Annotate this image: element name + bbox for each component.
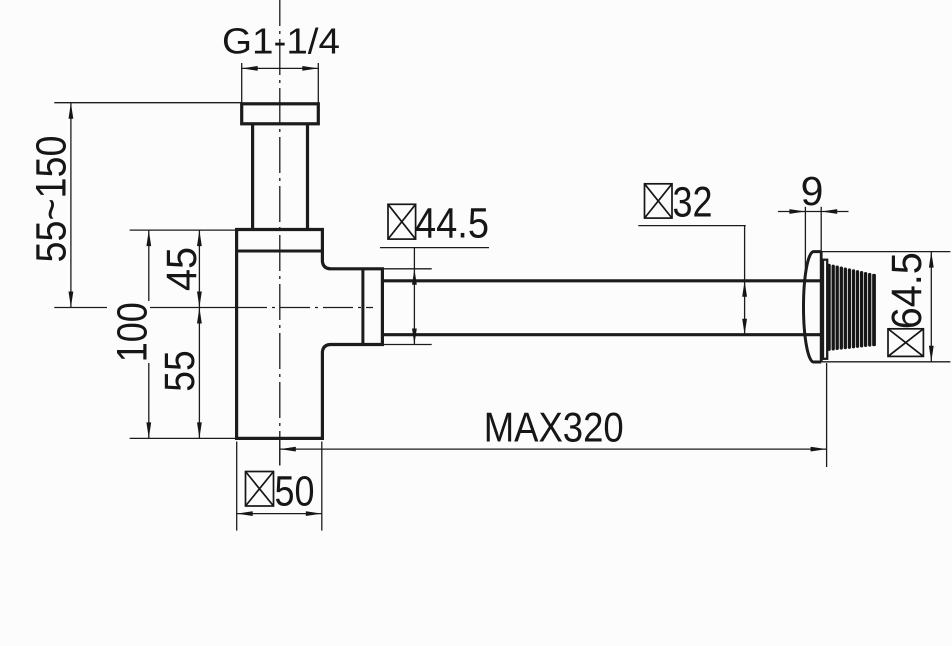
wall rosette (dome) — [804, 252, 822, 362]
dim 64.5 line — [930, 252, 932, 362]
dim 100/55 bottom extension — [130, 437, 237, 439]
arrow 9 right (points left) — [821, 209, 837, 214]
label 100 background — [107, 301, 150, 363]
body flange line — [237, 250, 323, 253]
arrow 55 up — [197, 308, 202, 324]
dim 9 right extension — [820, 207, 822, 252]
dim G1-1/4 extension lines — [241, 63, 243, 104]
svg-text:MAX320: MAX320 — [484, 403, 624, 450]
arrow 100 up — [146, 230, 151, 246]
dim MAX320 line — [280, 448, 827, 450]
tailpiece collar — [823, 260, 827, 359]
dim MAX320 left extension — [279, 438, 281, 465]
svg-text:G1-1/4: G1-1/4 — [222, 21, 340, 62]
arrow 100 down — [146, 422, 151, 438]
dim 44.5 top extension — [384, 268, 432, 270]
arrow G right — [302, 66, 318, 71]
arrow 32 down — [742, 319, 747, 335]
arrow 55 down — [197, 422, 202, 438]
label dia32 box — [645, 184, 673, 218]
arrow 64.5 down — [929, 346, 934, 362]
arrow 32 up — [742, 281, 747, 297]
dim 55~150 top extension — [54, 102, 241, 104]
dim 100/45 top extension — [130, 229, 237, 231]
outlet nut face line — [361, 269, 364, 345]
trap body outline — [237, 230, 383, 439]
svg-text:64.5: 64.5 — [883, 252, 931, 329]
horizontal centerline (outlet axis, left extension) — [54, 307, 237, 309]
dim 50 left extension — [236, 442, 238, 531]
svg-text:50: 50 — [275, 468, 315, 516]
arrow MAX320 left — [280, 447, 296, 452]
svg-text:45: 45 — [158, 247, 206, 291]
dim 9 left extension — [804, 207, 806, 275]
label dia50 box — [246, 472, 274, 507]
outlet tube (horizontal pipe) — [382, 279, 821, 282]
arrow 50 right — [306, 511, 322, 516]
thread end cap — [873, 274, 876, 346]
svg-text:100: 100 — [109, 302, 157, 362]
svg-text:32: 32 — [673, 179, 713, 227]
dim 64.5 top extension — [813, 251, 950, 253]
inlet nut (top hat) — [242, 104, 319, 124]
dim 64.5 bottom extension — [821, 361, 950, 363]
arrow MAX320 right — [811, 447, 827, 452]
dim G1-1/4 line — [242, 67, 319, 69]
arrow 64.5 up — [929, 252, 934, 268]
dim 44.5 leader — [380, 247, 489, 249]
svg-text:9: 9 — [801, 168, 824, 214]
svg-text:44.5: 44.5 — [415, 200, 489, 248]
arrow G left — [242, 66, 258, 71]
dim 100 line — [148, 230, 150, 438]
label dia44.5 box — [388, 204, 416, 239]
arrow 55~150 down — [69, 292, 74, 308]
svg-text:55~150: 55~150 — [28, 136, 76, 263]
dim 55~150 line — [70, 103, 72, 308]
dim 32 line — [744, 226, 746, 335]
arrow 44.5 up — [412, 269, 417, 285]
dim 50 right extension — [321, 442, 323, 531]
vertical centerline (inlet axis) — [279, 0, 281, 465]
dim MAX320 right extension — [826, 363, 828, 467]
arrow 55~150 up — [69, 103, 74, 119]
dim 32 leader — [638, 225, 746, 227]
arrow 45 down — [197, 292, 202, 308]
dim 44.5 line — [413, 248, 415, 345]
arrowheads — [69, 66, 934, 516]
wall rosette face line — [820, 252, 823, 362]
label dia64.5 box (rotated) — [888, 329, 923, 357]
dim 9 line — [778, 211, 849, 213]
horizontal centerline (through trap body) — [237, 307, 373, 309]
dim 45/55 line — [198, 230, 200, 438]
arrow 44.5 down — [412, 329, 417, 345]
arrow 45 up — [197, 230, 202, 246]
arrow 9 left (points right) — [789, 209, 805, 214]
dim 50 line — [237, 513, 322, 515]
arrow 50 left — [237, 511, 253, 516]
inlet tube (vertical pipe) — [251, 124, 254, 230]
svg-text:55: 55 — [156, 350, 204, 392]
dim 44.5 bottom extension — [384, 344, 432, 346]
threaded tailpiece — [829, 265, 874, 349]
